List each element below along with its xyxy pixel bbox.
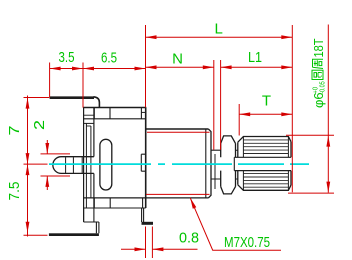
0.8 arrows (outside) bbox=[135, 247, 146, 251]
dim line L1 bbox=[221, 66, 293, 68]
dim line 2 bbox=[46, 140, 48, 190]
shaft slot bbox=[234, 157, 291, 170]
svg-text:T: T bbox=[262, 93, 271, 110]
3.5 arrows bbox=[50, 67, 61, 71]
dim line 7 / 7.5 bbox=[27, 96, 29, 237]
bottom left lug bbox=[84, 208, 99, 233]
dim line N bbox=[146, 66, 214, 68]
right leg bbox=[142, 208, 144, 223]
threaded bushing bbox=[146, 129, 215, 198]
body right wall bbox=[145, 108, 147, 209]
svg-text:+0: +0 bbox=[313, 87, 320, 94]
6.5 arrows bbox=[83, 67, 94, 71]
svg-text:6.5: 6.5 bbox=[101, 50, 117, 67]
body top flange bbox=[83, 108, 146, 119]
hanzi yuan bbox=[312, 70, 323, 79]
dim line T bbox=[239, 113, 292, 115]
body bottom flange bbox=[84, 198, 209, 208]
body top tab bbox=[50, 97, 100, 108]
7.5 arrows bbox=[26, 164, 30, 175]
green dimension texts bbox=[6, 21, 271, 252]
svg-text:M7X0.75: M7X0.75 bbox=[224, 234, 270, 251]
svg-text:L: L bbox=[215, 21, 223, 38]
svg-text:-0.05: -0.05 bbox=[320, 81, 327, 94]
2 arrows (outside) bbox=[45, 143, 49, 154]
knurl teeth lines bbox=[243, 140, 288, 187]
7 arrows bbox=[26, 98, 30, 109]
red dimension/extension lines bbox=[24, 25, 335, 259]
svg-text:N: N bbox=[172, 51, 183, 68]
L1 arrows bbox=[221, 65, 232, 69]
second neck bbox=[236, 150, 238, 179]
N arrows bbox=[146, 65, 157, 69]
extension lines bbox=[49, 63, 51, 98]
hanzi zhou bbox=[313, 59, 324, 68]
svg-text:7.5: 7.5 bbox=[6, 182, 23, 201]
svg-text:7: 7 bbox=[6, 126, 23, 136]
shaft neck groove bbox=[211, 150, 221, 179]
shaft collar bbox=[221, 136, 236, 194]
L arrows bbox=[146, 35, 157, 39]
centerline bbox=[49, 163, 309, 165]
svg-text:18T: 18T bbox=[311, 38, 326, 57]
right mounting foot bbox=[142, 222, 154, 225]
leader M7X0.75 bbox=[190, 198, 281, 250]
dim line dia6 bbox=[327, 25, 329, 193]
svg-text:3.5: 3.5 bbox=[59, 49, 75, 66]
left mounting foot bbox=[49, 233, 99, 236]
dim line 0.8 bbox=[121, 248, 198, 250]
knurled shaft end bbox=[238, 137, 291, 191]
left bracket plate bbox=[84, 108, 94, 223]
red arrowheads bbox=[26, 35, 331, 251]
svg-text:2: 2 bbox=[31, 120, 48, 130]
right wall bump bbox=[141, 154, 145, 171]
thread minor dia lines bbox=[147, 131, 210, 133]
T arrows bbox=[239, 112, 250, 116]
svg-text:L1: L1 bbox=[248, 49, 262, 66]
dia arrows bbox=[326, 136, 330, 147]
actuator pin bbox=[53, 157, 94, 174]
leader arrow bbox=[190, 198, 196, 209]
body slot (stadium hole) bbox=[100, 139, 112, 190]
dim line L bbox=[146, 36, 293, 38]
dim line 3.5 and 6.5 bbox=[50, 68, 146, 70]
svg-text:0.8: 0.8 bbox=[179, 230, 199, 247]
label dia6 tolerance + 18T (rotated) bbox=[311, 38, 327, 108]
